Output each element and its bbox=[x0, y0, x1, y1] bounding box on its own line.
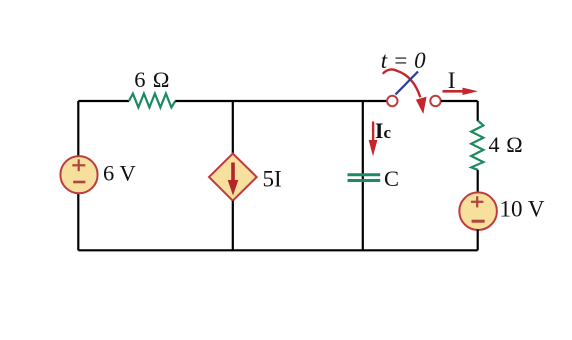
minus sign of 10V bbox=[472, 220, 485, 223]
svg-text:4 Ω: 4 Ω bbox=[489, 132, 524, 157]
current arrow Ic bbox=[369, 122, 378, 157]
voltage source 6V circle bbox=[60, 156, 97, 193]
switch right terminal circle bbox=[430, 96, 440, 106]
resistor R 4ohm zigzag bbox=[471, 121, 483, 170]
minus sign of 6V bbox=[73, 181, 85, 184]
wire: left vertical branch bbox=[77, 101, 79, 250]
wire: middle branch vertical (top) bbox=[232, 101, 234, 155]
svg-text:5I: 5I bbox=[263, 167, 282, 192]
wire: right vertical top bbox=[477, 101, 479, 121]
svg-text:I: I bbox=[448, 68, 456, 93]
current arrow I bbox=[443, 88, 479, 95]
arrow inside 5I source bbox=[228, 163, 239, 196]
wire: middle branch vertical (bottom) bbox=[232, 201, 234, 251]
plus sign of 10V bbox=[471, 196, 483, 207]
resistor R 6ohm zigzag bbox=[129, 94, 175, 108]
wire: top-left horizontal (left corner to 6ohm resistor) bbox=[78, 100, 129, 102]
wire: bottom horizontal bbox=[78, 249, 477, 251]
svg-text:10 V: 10 V bbox=[500, 197, 545, 222]
switch closing arc arrow (red) bbox=[383, 70, 421, 98]
switch blade (blue) bbox=[396, 72, 419, 95]
voltage source 10V circle bbox=[459, 192, 497, 230]
wire: top middle horizontal (resistor to switch left terminal) bbox=[175, 100, 387, 102]
capacitor C plates bbox=[348, 173, 381, 176]
plus sign of 6V bbox=[72, 159, 85, 171]
wire: capacitor branch vertical bbox=[362, 101, 364, 250]
svg-text:C: C bbox=[384, 166, 399, 191]
svg-text:6 V: 6 V bbox=[103, 160, 136, 185]
svg-text:6 Ω: 6 Ω bbox=[134, 67, 170, 92]
dependent current source 5I diamond bbox=[209, 154, 257, 201]
wire: switch right terminal to top right corner bbox=[441, 100, 478, 102]
wire: right vertical between resistor and 10V source bbox=[477, 170, 479, 194]
svg-text:t = 0: t = 0 bbox=[381, 48, 426, 73]
wire: right vertical bottom bbox=[477, 230, 479, 251]
switch left terminal circle bbox=[387, 96, 397, 106]
